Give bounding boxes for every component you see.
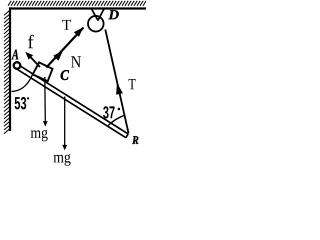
wall: [9, 7, 11, 131]
friction arrow f: [29, 55, 41, 67]
rope from pulley D to rod end R: [105, 30, 128, 134]
rope from block C to pulley D: [46, 28, 83, 68]
T arrowhead toward pulley: [74, 27, 83, 37]
label D (pulley): [108, 10, 119, 19]
label mg (rod weight): [54, 154, 71, 166]
block C: [33, 62, 53, 81]
ceiling hatching: [8, 1, 146, 6]
ceiling: [9, 7, 146, 9]
label 53 degrees: [15, 97, 27, 110]
degree dot of 53: [27, 97, 29, 99]
label mg (block weight): [31, 130, 48, 142]
label T (right rope): [129, 79, 136, 89]
rod A-R (beam): [15, 64, 128, 137]
N arrowhead: [53, 51, 63, 61]
53-degree arc: [12, 74, 34, 92]
pulley hanger: [92, 9, 105, 21]
label R (rod end): [132, 136, 138, 144]
label T (rope to pulley): [62, 20, 71, 30]
weight arrow mg of rod: [64, 97, 66, 146]
T arrowhead on right rope: [116, 83, 123, 95]
degree dot of 37: [118, 108, 121, 111]
label N (normal force): [71, 56, 81, 67]
pulley D wheel: [88, 16, 104, 32]
37-degree arc: [108, 115, 124, 125]
label C (block): [61, 70, 69, 80]
weight arrow mg of block C: [44, 77, 47, 122]
label 37 degrees: [103, 106, 115, 118]
label A (pivot): [11, 50, 18, 60]
label f (friction): [28, 35, 34, 48]
wall hatching: [4, 11, 10, 134]
pivot A (hinge circle): [14, 62, 21, 69]
